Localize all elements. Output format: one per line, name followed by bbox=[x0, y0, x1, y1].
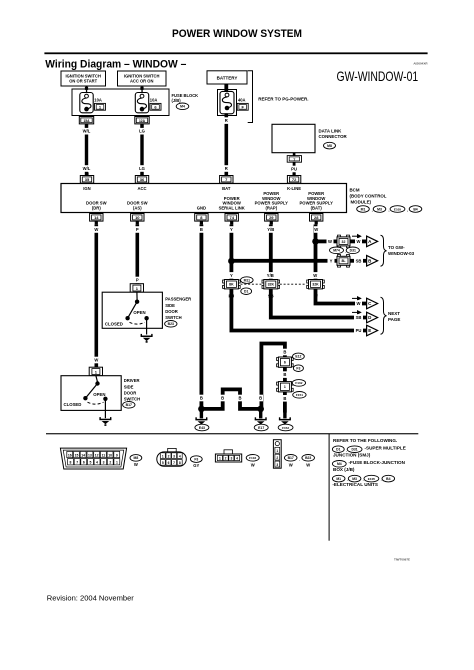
svg-text:Y: Y bbox=[330, 258, 333, 263]
driver side door switch box bbox=[61, 376, 121, 411]
legend oval E105 bbox=[364, 475, 379, 482]
label P top bbox=[135, 226, 140, 233]
ignition switch ON OR START box bbox=[61, 71, 106, 86]
svg-text:74: 74 bbox=[229, 215, 234, 220]
svg-text:4: 4 bbox=[179, 454, 181, 458]
svg-text:D31: D31 bbox=[350, 249, 356, 253]
svg-text:W: W bbox=[134, 462, 138, 467]
svg-text:36: 36 bbox=[140, 177, 145, 182]
BCM pin 10 bbox=[131, 214, 144, 222]
svg-text:14: 14 bbox=[94, 215, 99, 220]
svg-text:B17: B17 bbox=[288, 456, 294, 460]
svg-text:(RAP): (RAP) bbox=[265, 205, 277, 210]
svg-text:1: 1 bbox=[116, 461, 118, 465]
svg-text:12A: 12A bbox=[139, 119, 146, 123]
svg-text:M8: M8 bbox=[327, 144, 332, 148]
label P above passenger switch bbox=[135, 277, 140, 284]
svg-text:GW-WINDOW-01: GW-WINDOW-01 bbox=[337, 68, 419, 84]
svg-text:8K: 8K bbox=[229, 283, 234, 287]
svg-text:M3: M3 bbox=[377, 207, 382, 211]
svg-text:Y: Y bbox=[230, 273, 233, 278]
ignition switch ACC OR ON box bbox=[118, 71, 167, 86]
svg-text:8: 8 bbox=[70, 461, 72, 465]
svg-text:7: 7 bbox=[173, 461, 175, 465]
svg-text:B: B bbox=[221, 396, 224, 401]
svg-text:5: 5 bbox=[162, 461, 164, 465]
svg-text:F102: F102 bbox=[295, 381, 302, 385]
svg-text:13: 13 bbox=[88, 453, 92, 457]
driver switch common node bbox=[95, 381, 99, 385]
BCM pin 36 bbox=[135, 176, 148, 184]
svg-text:PASSENGER: PASSENGER bbox=[165, 297, 191, 302]
svg-text:.: . bbox=[372, 208, 373, 213]
connector face F3 bbox=[157, 448, 187, 466]
svg-text:(J/B): (J/B) bbox=[172, 98, 182, 103]
svg-text:7: 7 bbox=[76, 461, 78, 465]
label W row A right bbox=[355, 238, 362, 245]
svg-text:B23: B23 bbox=[168, 322, 174, 326]
label B bottom bbox=[199, 395, 204, 402]
svg-text:Y: Y bbox=[230, 227, 233, 232]
driver switch closed contact bbox=[83, 396, 87, 400]
passenger switch internal wire bbox=[136, 292, 138, 300]
svg-text:F152: F152 bbox=[282, 426, 289, 430]
wire row A W to GW-WINDOW-03 bbox=[316, 240, 367, 244]
passenger side door switch box bbox=[102, 292, 162, 328]
svg-text:BOX (J/B): BOX (J/B) bbox=[333, 467, 355, 472]
svg-text:9: 9 bbox=[116, 453, 118, 457]
svg-text:32K: 32K bbox=[312, 283, 319, 287]
svg-text:.: . bbox=[299, 456, 300, 461]
legend oval B17 bbox=[284, 455, 297, 462]
data link connector box bbox=[272, 124, 315, 152]
svg-text:W: W bbox=[289, 463, 293, 468]
label Y top bbox=[229, 226, 234, 233]
connector oval F102 bbox=[292, 380, 305, 387]
passenger switch closed contact bbox=[125, 316, 129, 320]
label W2 top bbox=[314, 226, 319, 233]
ground oval F152 bbox=[278, 424, 293, 431]
wire PU DLC to BCM K-LINE bbox=[293, 162, 296, 175]
connector ovals M11 D1 bbox=[241, 277, 254, 284]
svg-text:6: 6 bbox=[83, 461, 85, 465]
legend oval F3 bbox=[190, 456, 202, 463]
connector face B17 B23 bbox=[273, 440, 281, 469]
svg-text:3: 3 bbox=[230, 457, 232, 461]
svg-text:REFER TO THE FOLLOWING.: REFER TO THE FOLLOWING. bbox=[333, 438, 397, 443]
wire PU to next page bbox=[231, 289, 366, 331]
ground U link bbox=[261, 344, 285, 413]
svg-text:SIDE: SIDE bbox=[165, 303, 175, 308]
svg-text:2: 2 bbox=[276, 456, 278, 460]
fuse 10A #6 bbox=[135, 93, 148, 113]
fuse 1 number box bbox=[95, 103, 106, 110]
wire Y serial link bbox=[230, 225, 234, 280]
driver switch dashed throw bbox=[88, 402, 104, 404]
svg-text:10A: 10A bbox=[94, 98, 102, 103]
triangle connector C bbox=[367, 298, 378, 309]
passenger switch oval B23 bbox=[165, 321, 177, 328]
label PU row E bbox=[354, 327, 363, 334]
svg-text:R: R bbox=[225, 166, 228, 171]
svg-text:AIS004XR: AIS004XR bbox=[413, 62, 428, 66]
terminal 12A bbox=[135, 117, 149, 124]
label B jog right bbox=[238, 395, 243, 402]
svg-text:2: 2 bbox=[109, 461, 111, 465]
svg-text:E105: E105 bbox=[394, 207, 402, 211]
svg-text:-FUSE BLOCK-JUNCTION: -FUSE BLOCK-JUNCTION bbox=[349, 460, 406, 465]
svg-text:F151: F151 bbox=[296, 393, 303, 397]
legend oval B4 bbox=[382, 475, 395, 482]
node ground junction E17 bbox=[257, 406, 264, 413]
svg-text:35: 35 bbox=[85, 177, 90, 182]
driver switch arm bbox=[85, 384, 97, 399]
fuse 6 number box bbox=[150, 103, 161, 110]
svg-text:6: 6 bbox=[168, 461, 170, 465]
BCM connector oval M1 bbox=[357, 206, 370, 213]
label SB below connector bbox=[267, 293, 274, 300]
legend oval B23 bbox=[302, 455, 315, 462]
svg-text:1: 1 bbox=[284, 385, 286, 389]
wire row B Y to GW-WINDOW-03 bbox=[231, 259, 366, 263]
svg-text:OPEN: OPEN bbox=[93, 392, 105, 397]
arrow row A bbox=[352, 234, 362, 239]
legend oval M4 bbox=[332, 461, 346, 468]
label B above F152 ground bbox=[283, 395, 288, 402]
svg-text:B: B bbox=[283, 372, 286, 377]
inline connector 6 bbox=[277, 357, 294, 367]
svg-text:Revision: 2004 November: Revision: 2004 November bbox=[47, 596, 135, 603]
passenger switch common node bbox=[135, 300, 139, 304]
svg-text:SWITCH: SWITCH bbox=[165, 315, 182, 320]
ground E43 bbox=[200, 409, 203, 419]
legend oval M8 bbox=[130, 455, 142, 462]
svg-text:15: 15 bbox=[75, 453, 79, 457]
inline connector 8L row B bbox=[337, 255, 350, 268]
BCM pin 74 bbox=[225, 214, 238, 222]
BCM pin 35 bbox=[80, 176, 93, 184]
wire LG fuse6 to BCM ACC bbox=[140, 124, 143, 176]
svg-text:D31: D31 bbox=[351, 448, 357, 452]
wire B BCM GND to ground junction bbox=[200, 225, 204, 409]
svg-text:P: P bbox=[136, 278, 139, 283]
dashed link 1 bbox=[241, 283, 263, 285]
svg-text:GND: GND bbox=[197, 205, 206, 210]
svg-text:SERIAL LINK: SERIAL LINK bbox=[219, 205, 245, 210]
svg-text:1: 1 bbox=[276, 449, 278, 453]
label SB row D bbox=[354, 314, 363, 321]
label LG upper bbox=[138, 128, 145, 135]
wire ground link with jog bbox=[201, 389, 260, 409]
svg-text:WINDOW-03: WINDOW-03 bbox=[388, 251, 415, 256]
connector oval E12 bbox=[293, 353, 305, 360]
svg-text:E: E bbox=[368, 328, 371, 333]
node ground junction E43 bbox=[198, 406, 205, 413]
wire R battery fuse to BCM BAT bbox=[225, 114, 229, 176]
BCM pin 72 bbox=[287, 176, 300, 184]
svg-text:B4: B4 bbox=[413, 207, 417, 211]
legend oval D31 bbox=[347, 446, 362, 453]
BCM pin 8 bbox=[195, 214, 208, 222]
label Y/B above connector bbox=[265, 272, 275, 279]
svg-text:32K: 32K bbox=[268, 283, 275, 287]
label B between connectors bbox=[283, 371, 288, 378]
driver switch internal wire bbox=[96, 376, 98, 382]
svg-text:TO GW-: TO GW- bbox=[388, 245, 405, 250]
passenger switch dashed throw bbox=[130, 322, 145, 324]
wire ignition1 to fuse 1 bbox=[86, 86, 87, 93]
header rule bbox=[44, 52, 427, 54]
svg-text:DATA LINK: DATA LINK bbox=[319, 128, 343, 133]
driver switch oval B17 bbox=[123, 402, 135, 409]
svg-text:M4: M4 bbox=[337, 462, 342, 466]
BCM connector oval E105 bbox=[390, 206, 405, 213]
svg-text:M74: M74 bbox=[333, 249, 340, 253]
label W above driver switch bbox=[94, 357, 99, 364]
legend separator line bbox=[46, 433, 418, 434]
svg-text:10A: 10A bbox=[150, 98, 158, 103]
svg-text:K-LINE: K-LINE bbox=[287, 186, 301, 191]
fuse 10A #1 bbox=[80, 93, 93, 113]
svg-text:(DR): (DR) bbox=[92, 205, 101, 210]
svg-text:1: 1 bbox=[219, 457, 221, 461]
label B U right upper bbox=[283, 349, 288, 356]
inline connector 32K left bbox=[262, 280, 280, 289]
svg-text:16: 16 bbox=[68, 453, 72, 457]
svg-text:ACC: ACC bbox=[137, 186, 146, 191]
svg-text:E12: E12 bbox=[295, 355, 301, 359]
arrow row C bbox=[352, 296, 362, 301]
label B top bbox=[199, 226, 204, 233]
svg-text:D1: D1 bbox=[336, 448, 340, 452]
svg-text:OPEN: OPEN bbox=[133, 310, 145, 315]
svg-text:W: W bbox=[313, 273, 317, 278]
connector face F102 bbox=[215, 450, 241, 462]
svg-text:LG: LG bbox=[139, 166, 145, 171]
label LG lower bbox=[138, 165, 145, 172]
wire W to next page bbox=[316, 289, 367, 304]
svg-text:(AS): (AS) bbox=[133, 205, 142, 210]
driver switch open contact bbox=[103, 397, 107, 401]
BCM connector oval M3 bbox=[373, 206, 386, 213]
svg-text:PU: PU bbox=[356, 328, 362, 333]
svg-text:12: 12 bbox=[95, 453, 99, 457]
svg-text:W: W bbox=[94, 227, 98, 232]
wire W BCM to driver door switch bbox=[95, 225, 99, 368]
wire P BCM to passenger door switch bbox=[136, 225, 140, 284]
BCM connector oval B4 bbox=[409, 206, 422, 213]
BCM box bbox=[61, 184, 347, 213]
svg-text:MODULE): MODULE) bbox=[351, 199, 372, 204]
ground oval E17 bbox=[254, 424, 268, 431]
inline connector 8K bbox=[223, 280, 241, 289]
label Y above connector bbox=[229, 272, 234, 279]
DLC pin 7 box bbox=[293, 153, 296, 156]
svg-text:DOOR: DOOR bbox=[124, 390, 137, 395]
legend vertical rule bbox=[329, 434, 330, 541]
svg-text:M11: M11 bbox=[244, 278, 251, 282]
svg-text:BCM: BCM bbox=[350, 188, 360, 193]
svg-text:B: B bbox=[200, 396, 203, 401]
inline connector 1 chain bbox=[277, 382, 294, 392]
svg-text:B: B bbox=[259, 396, 262, 401]
inline connector 32 row A bbox=[337, 235, 350, 248]
svg-text:GY: GY bbox=[193, 463, 199, 468]
svg-text:M1: M1 bbox=[361, 207, 366, 211]
svg-text:IGN: IGN bbox=[83, 186, 90, 191]
svg-text:LG: LG bbox=[139, 129, 145, 134]
svg-text:SIDE: SIDE bbox=[124, 384, 134, 389]
svg-text:M8: M8 bbox=[134, 456, 139, 460]
svg-text:10: 10 bbox=[108, 453, 112, 457]
triangle connector D bbox=[367, 312, 378, 323]
svg-text:7: 7 bbox=[293, 158, 295, 162]
passenger switch arm bbox=[128, 302, 138, 319]
svg-text:F3: F3 bbox=[296, 367, 300, 371]
data link connector oval M8 bbox=[324, 142, 336, 149]
triangle connector A bbox=[367, 236, 378, 247]
svg-text:-SUPER MULTIPLE: -SUPER MULTIPLE bbox=[365, 445, 406, 450]
ground E17 bbox=[259, 409, 262, 419]
brace to GW-WINDOW-03 bbox=[381, 235, 387, 266]
fuse block J/B box bbox=[72, 89, 169, 116]
connector ovals M74 D31 bbox=[330, 247, 344, 254]
svg-text:B: B bbox=[238, 396, 241, 401]
svg-text:2: 2 bbox=[168, 454, 170, 458]
svg-text:W: W bbox=[306, 463, 310, 468]
wire W into driver switch pin bbox=[89, 367, 102, 376]
svg-text:REFER TO PG-POWER.: REFER TO PG-POWER. bbox=[258, 97, 308, 102]
passenger switch ground wire bbox=[146, 318, 148, 334]
label Y/B top bbox=[266, 226, 276, 233]
svg-text:(BODY CONTROL: (BODY CONTROL bbox=[350, 194, 387, 199]
svg-text:15A: 15A bbox=[83, 119, 90, 123]
svg-text:E17: E17 bbox=[258, 426, 264, 430]
svg-text:.: . bbox=[407, 208, 408, 213]
label W below connector bbox=[314, 293, 319, 300]
svg-text:F102: F102 bbox=[249, 456, 256, 460]
svg-text:NEXT: NEXT bbox=[388, 311, 400, 316]
svg-text:SB: SB bbox=[356, 258, 362, 263]
svg-text:BAT: BAT bbox=[222, 186, 231, 191]
svg-text:SB: SB bbox=[356, 315, 362, 320]
svg-text:F3: F3 bbox=[194, 457, 198, 461]
wire ignition2 to fuse 6 bbox=[141, 86, 142, 93]
svg-text:POWER WINDOW SYSTEM: POWER WINDOW SYSTEM bbox=[172, 28, 302, 40]
svg-text:BATTERY: BATTERY bbox=[217, 76, 238, 81]
fuse F letter box bbox=[237, 103, 248, 110]
driver switch ground wire bbox=[104, 399, 106, 418]
brace next page bbox=[381, 297, 387, 334]
label W top bbox=[94, 226, 99, 233]
svg-text:29: 29 bbox=[269, 215, 274, 220]
svg-text:R: R bbox=[225, 118, 228, 123]
ground F152 bbox=[283, 412, 286, 418]
svg-text:28: 28 bbox=[314, 215, 319, 220]
BCM pin 14 bbox=[90, 214, 103, 222]
svg-text:W: W bbox=[357, 301, 361, 306]
ground driver door switch bbox=[99, 417, 111, 426]
svg-text:D1: D1 bbox=[244, 290, 248, 294]
ground oval E43 bbox=[195, 424, 209, 431]
legend oval M3 bbox=[348, 475, 361, 482]
svg-text:Y/B: Y/B bbox=[267, 273, 274, 278]
terminal 15A bbox=[79, 117, 93, 124]
passenger switch open contact bbox=[144, 316, 148, 320]
svg-text:W: W bbox=[94, 358, 98, 363]
svg-text:B23: B23 bbox=[305, 456, 311, 460]
triangle connector E bbox=[367, 325, 378, 336]
svg-text:3: 3 bbox=[173, 454, 175, 458]
svg-text:JUNCTION (SMJ): JUNCTION (SMJ) bbox=[333, 452, 371, 457]
connector oval F151 bbox=[293, 392, 306, 399]
wire W/L fuse1 to BCM IGN bbox=[85, 124, 88, 176]
svg-text:W: W bbox=[328, 239, 332, 244]
svg-text:SWITCH: SWITCH bbox=[124, 397, 141, 402]
svg-text:PU: PU bbox=[291, 167, 297, 172]
svg-text:B: B bbox=[200, 227, 203, 232]
svg-text:14: 14 bbox=[81, 453, 85, 457]
svg-text:W/L: W/L bbox=[83, 129, 91, 134]
legend oval M1 bbox=[332, 475, 345, 482]
svg-text:M3: M3 bbox=[352, 477, 357, 481]
svg-text:DRIVER: DRIVER bbox=[124, 378, 140, 383]
battery fuse block box bbox=[218, 90, 237, 116]
fuse block connector oval M4 bbox=[176, 103, 189, 110]
svg-text:5: 5 bbox=[89, 461, 91, 465]
label B jog left bbox=[220, 395, 225, 402]
label R lower bbox=[224, 165, 229, 172]
connector oval F3 chain bbox=[293, 365, 303, 372]
svg-text:P: P bbox=[136, 227, 139, 232]
node junction on Y wire bbox=[228, 258, 235, 265]
svg-text:8: 8 bbox=[179, 461, 181, 465]
triangle connector B bbox=[367, 256, 378, 267]
wire SB to next page bbox=[271, 289, 367, 318]
label R upper bbox=[224, 117, 229, 124]
svg-text:.: . bbox=[388, 208, 389, 213]
wire Y/B RAP bbox=[269, 225, 273, 280]
BCM pin 7 bbox=[220, 176, 233, 184]
wire P into passenger switch pin bbox=[130, 284, 143, 293]
label W/L upper bbox=[82, 128, 92, 135]
svg-text:1: 1 bbox=[162, 454, 164, 458]
dashed link 2 bbox=[280, 283, 307, 285]
svg-text:6: 6 bbox=[284, 361, 286, 365]
svg-text:W: W bbox=[357, 239, 361, 244]
svg-text:3: 3 bbox=[103, 461, 105, 465]
label B U left leg bbox=[258, 395, 263, 402]
arrow row D bbox=[352, 310, 362, 315]
svg-text:B: B bbox=[283, 396, 286, 401]
BCM pin 28 bbox=[310, 214, 323, 222]
svg-text:.: . bbox=[381, 477, 382, 482]
label PU bbox=[291, 166, 298, 173]
legend oval D1 bbox=[332, 446, 344, 453]
label W row A left bbox=[327, 238, 334, 245]
label W above connector bbox=[313, 272, 318, 279]
svg-text:B: B bbox=[283, 350, 286, 355]
svg-text:32: 32 bbox=[342, 240, 346, 244]
svg-text:3: 3 bbox=[276, 463, 278, 467]
label Y row B bbox=[328, 258, 335, 265]
svg-text:40A: 40A bbox=[238, 97, 246, 102]
refer bracket bbox=[248, 71, 253, 123]
label PU below connector bbox=[228, 293, 235, 300]
connector face M8 data link connector bbox=[60, 448, 126, 469]
svg-text:W: W bbox=[251, 463, 255, 468]
label SB row B bbox=[354, 258, 363, 265]
